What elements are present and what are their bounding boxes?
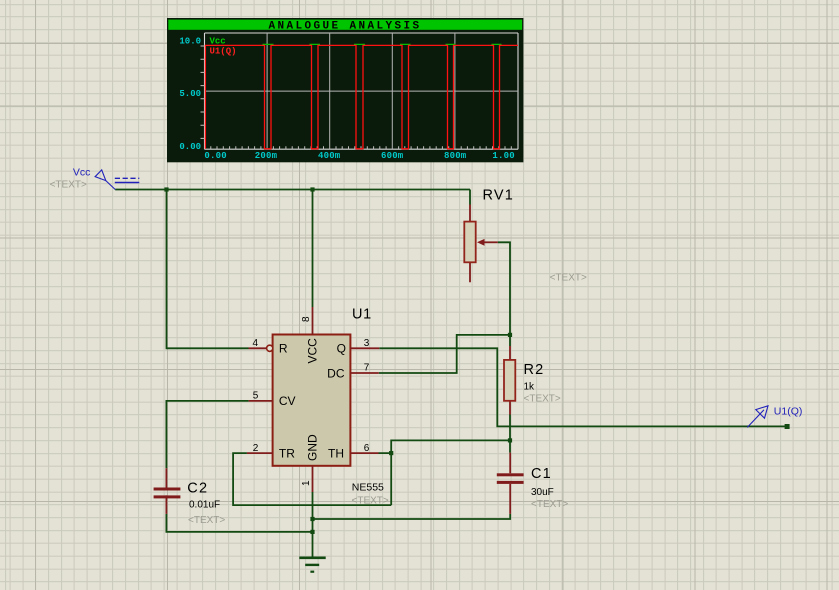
svg-text:<TEXT>: <TEXT> — [550, 273, 587, 284]
svg-text:2: 2 — [253, 443, 259, 454]
op IC U1 NE555 body — [273, 335, 351, 466]
trace Vcc green segments — [263, 43, 502, 45]
voltage probe U1(Q) — [747, 406, 768, 428]
pin 1 GND stub — [312, 466, 314, 492]
svg-text:<TEXT>: <TEXT> — [50, 180, 87, 191]
junction pin6 — [389, 451, 393, 455]
svg-text:7: 7 — [364, 363, 370, 374]
label C1 TEXT — [531, 499, 568, 510]
capacitor C1 — [497, 453, 524, 514]
svg-text:3: 3 — [364, 338, 370, 349]
pin 4 R stub with bubble — [249, 345, 273, 351]
legend Vcc — [210, 36, 226, 46]
legend U1(Q) — [210, 46, 237, 56]
svg-text:5: 5 — [253, 391, 259, 402]
svg-text:0.01uF: 0.01uF — [189, 500, 220, 511]
label RV1 TEXT — [550, 273, 587, 284]
svg-text:600m: 600m — [381, 151, 404, 161]
wire C2 bottom to ground — [166, 514, 312, 532]
junction C2 gnd — [310, 530, 314, 534]
svg-text:1: 1 — [301, 480, 312, 486]
y-axis ticks — [201, 46, 205, 138]
y-axis labels — [179, 37, 201, 153]
label R2 — [524, 362, 545, 378]
svg-text:CV: CV — [279, 394, 296, 408]
wire R2 top green — [509, 335, 511, 346]
svg-text:30uF: 30uF — [531, 487, 554, 498]
wire DC pin7 to R2 top — [379, 335, 510, 373]
output terminal square — [785, 424, 790, 429]
wire RV1 wiper to node — [498, 242, 510, 335]
x-axis labels — [204, 151, 514, 161]
label C2 TEXT — [188, 515, 225, 526]
svg-text:NE555: NE555 — [352, 482, 384, 494]
svg-text:Vcc: Vcc — [73, 166, 91, 178]
svg-text:0.00: 0.00 — [179, 142, 201, 152]
wire TR loop — [233, 453, 391, 505]
svg-text:TH: TH — [328, 446, 344, 460]
ground — [299, 557, 325, 573]
pin 3 Q stub — [350, 347, 379, 349]
svg-text:<TEXT>: <TEXT> — [524, 393, 561, 404]
label R2 TEXT — [524, 393, 561, 404]
svg-text:U1(Q): U1(Q) — [210, 46, 237, 56]
svg-text:10.0: 10.0 — [179, 37, 201, 47]
svg-text:TR: TR — [279, 446, 295, 460]
svg-text:8: 8 — [301, 316, 312, 322]
wire C1 bottom to ground — [313, 514, 511, 519]
svg-text:5.00: 5.00 — [179, 89, 201, 99]
svg-text:<TEXT>: <TEXT> — [531, 499, 568, 510]
label U1(Q) — [774, 405, 803, 417]
junction C1 gnd — [310, 517, 314, 521]
svg-text:Q: Q — [337, 342, 346, 356]
pin 7 DC stub — [350, 372, 378, 374]
graph plot frame — [205, 33, 519, 149]
label NE555 — [352, 482, 384, 494]
wire Vcc rail — [115, 189, 470, 191]
label Vcc TEXT — [50, 180, 87, 191]
label R2 value 1k — [524, 382, 536, 393]
resistor R2 — [504, 346, 515, 415]
wire R2 bottom to C1 top — [509, 415, 511, 453]
wire TH node — [379, 440, 511, 505]
svg-text:1k: 1k — [524, 382, 536, 393]
svg-text:6: 6 — [364, 443, 370, 454]
wire Q pin3 to output — [379, 348, 787, 426]
pin numbers — [253, 316, 370, 486]
svg-text:0.00: 0.00 — [204, 151, 226, 161]
junction R2 top node — [508, 333, 512, 337]
junction TH node — [508, 438, 512, 442]
DC supply symbol — [115, 178, 140, 182]
label C1 — [531, 466, 552, 482]
svg-text:4: 4 — [253, 338, 259, 349]
trace U1(Q) red — [205, 45, 518, 148]
junction rail-R — [164, 187, 168, 191]
pin 8 VCC stub — [312, 307, 314, 335]
label U1 TEXT — [352, 496, 389, 507]
graph gridlines — [205, 33, 519, 149]
svg-text:C1: C1 — [531, 466, 552, 482]
svg-text:400m: 400m — [318, 151, 341, 161]
svg-text:<TEXT>: <TEXT> — [352, 496, 389, 507]
power terminal Vcc symbol — [95, 170, 115, 190]
capacitor C2 — [154, 468, 181, 514]
pin 2 TR stub — [247, 452, 273, 454]
label C2 value 0.01uF — [189, 500, 220, 511]
svg-text:U1(Q): U1(Q) — [774, 405, 803, 417]
svg-text:1.00: 1.00 — [492, 151, 514, 161]
pin 6 TH stub — [350, 452, 378, 454]
graph window background — [167, 18, 523, 162]
pin 5 CV stub — [249, 400, 273, 402]
junction rail-VCC — [310, 187, 314, 191]
wire rail to RV1 — [469, 190, 471, 205]
wire GND stem — [312, 492, 314, 557]
wire rail to R pin4 — [167, 190, 249, 349]
label C2 — [187, 480, 208, 496]
graph title bar — [168, 20, 522, 33]
svg-text:800m: 800m — [444, 151, 467, 161]
label C1 value 30uF — [531, 487, 554, 498]
svg-text:VCC: VCC — [306, 338, 320, 364]
svg-text:200m: 200m — [255, 151, 278, 161]
svg-text:C2: C2 — [187, 480, 208, 496]
svg-text:RV1: RV1 — [483, 187, 515, 203]
label RV1 — [483, 187, 515, 203]
svg-text:DC: DC — [327, 366, 345, 380]
wire CV to C2 — [166, 401, 248, 468]
wire rail to VCC pin8 — [312, 190, 314, 308]
svg-text:R: R — [279, 342, 288, 356]
svg-text:<TEXT>: <TEXT> — [188, 515, 225, 526]
svg-text:U1: U1 — [352, 307, 372, 323]
label Vcc — [73, 166, 91, 178]
label U1 — [352, 307, 372, 323]
pin labels — [279, 338, 346, 461]
svg-text:R2: R2 — [524, 362, 545, 378]
svg-text:ANALOGUE ANALYSIS: ANALOGUE ANALYSIS — [268, 20, 421, 32]
x-axis ticks — [211, 146, 512, 149]
potentiometer RV1 — [464, 205, 498, 283]
svg-text:GND: GND — [306, 434, 320, 461]
